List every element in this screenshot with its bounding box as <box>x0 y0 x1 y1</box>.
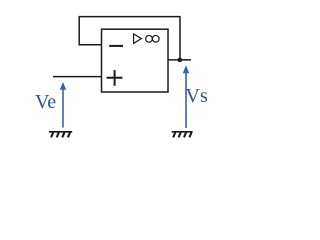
op-amp U1 body <box>102 29 169 92</box>
op-amp gain symbol (triangle) <box>134 34 142 44</box>
ground (input side) <box>49 132 72 138</box>
source arrow Vs <box>183 65 189 128</box>
junction: output node <box>178 58 183 63</box>
ground (output side) <box>172 132 193 138</box>
svg-text:Vs: Vs <box>186 85 208 107</box>
svg-text:Ve: Ve <box>35 91 56 113</box>
wire: feedback loop from output node to inverting input <box>79 17 180 60</box>
wire: output <box>168 59 191 61</box>
op-amp infinite-gain label (infinity) <box>146 35 159 42</box>
op-amp non-inverting input marker (plus) <box>107 70 123 86</box>
source arrow Ve <box>60 82 66 128</box>
op-amp inverting input marker (minus) <box>109 45 123 47</box>
wire: non-inverting input <box>53 76 102 78</box>
